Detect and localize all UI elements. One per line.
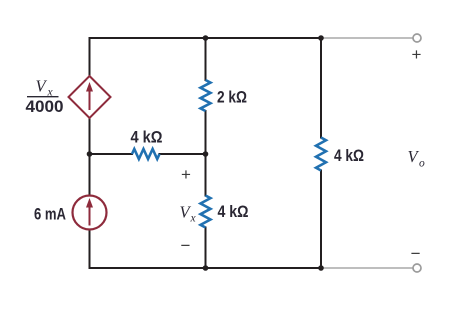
svg-text:6 mA: 6 mA bbox=[34, 205, 66, 224]
svg-text:2 kΩ: 2 kΩ bbox=[217, 88, 247, 107]
svg-text:o: o bbox=[419, 158, 425, 170]
svg-text:4 kΩ: 4 kΩ bbox=[218, 202, 249, 221]
svg-text:+: + bbox=[181, 165, 191, 184]
svg-text:4 kΩ: 4 kΩ bbox=[131, 128, 163, 147]
svg-text:4 kΩ: 4 kΩ bbox=[334, 146, 364, 165]
svg-text:−: − bbox=[181, 236, 191, 255]
svg-text:+: + bbox=[412, 45, 422, 64]
svg-text:−: − bbox=[411, 244, 421, 263]
svg-text:4000: 4000 bbox=[26, 97, 64, 116]
svg-text:x: x bbox=[190, 213, 197, 225]
